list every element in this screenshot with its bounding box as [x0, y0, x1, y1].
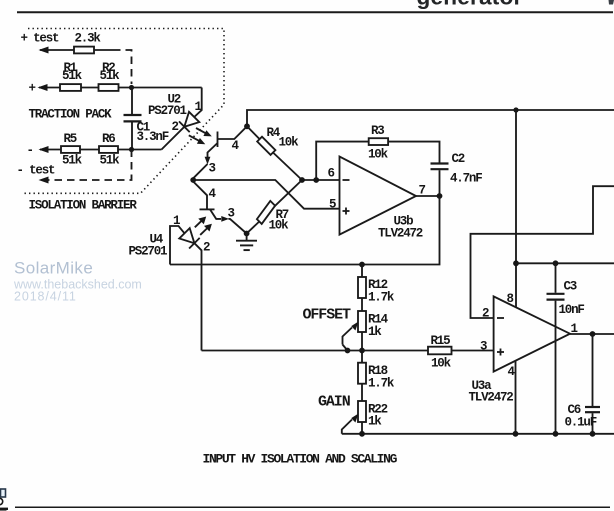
bottom horizontal rule — [15, 506, 610, 508]
wire R14 to R18 node — [361, 332, 363, 363]
label 3.3nF — [137, 130, 169, 144]
wire bridge left node to opamp pin5 — [193, 180, 339, 209]
label 51k (R2) — [100, 69, 121, 83]
R22 wiper arrow — [342, 420, 352, 434]
svg-text:GAIN: GAIN — [318, 394, 351, 411]
label 10nF — [559, 303, 585, 317]
capacitor C1 — [131, 88, 133, 115]
svg-text:INPUT HV ISOLATION AND SCALING: INPUT HV ISOLATION AND SCALING — [203, 452, 398, 467]
wire output down to offset bus — [170, 196, 440, 265]
svg-text:SolarMike: SolarMike — [14, 259, 93, 278]
resistor R15 — [428, 347, 452, 355]
label R3 — [371, 124, 384, 138]
dashed wire - test — [45, 150, 132, 181]
wire U3a pin2 feedback from right edge — [471, 186, 614, 318]
label R15 — [431, 334, 451, 348]
svg-text:+: + — [29, 82, 36, 96]
junction dot top bus — [513, 107, 518, 112]
label 4.7nF — [450, 172, 482, 186]
svg-text:1.7k: 1.7k — [368, 291, 395, 305]
label 10k (R7) — [269, 219, 290, 233]
main offset wire to R15 — [202, 350, 429, 352]
svg-text:R6: R6 — [102, 132, 115, 146]
svg-text:10k: 10k — [269, 219, 290, 233]
label 51k (R5) — [62, 154, 83, 168]
phototransistor U2 emitter with arrow (pin 3) — [208, 143, 218, 157]
label 1.7k (R18) — [368, 377, 395, 391]
node gnd bus C6 dot — [590, 431, 596, 437]
label - test — [17, 164, 56, 178]
node U3a output dot — [590, 331, 596, 337]
label R5 — [64, 132, 77, 146]
svg-text:PS2701: PS2701 — [148, 104, 187, 118]
caption INPUT HV ISOLATION AND SCALING — [203, 452, 398, 467]
label pin 1 (U2) — [195, 100, 202, 114]
wire U4 pin2 down — [194, 243, 201, 350]
light arrows U4 — [195, 217, 212, 235]
potentiometer R22 — [358, 401, 366, 422]
label pin 3 (U3a) — [480, 340, 487, 354]
svg-text:2018/4/11: 2018/4/11 — [14, 290, 77, 304]
wire R18 to R22 — [361, 384, 363, 401]
svg-text:10nF: 10nF — [559, 303, 585, 317]
potentiometer R14 — [358, 311, 366, 332]
node gnd bus pin4 dot — [513, 431, 519, 437]
label R22 — [368, 403, 388, 417]
top supply bus wire — [247, 110, 614, 126]
label TRACTION PACK — [29, 108, 113, 122]
svg-text:2: 2 — [172, 120, 179, 134]
label U3a — [472, 379, 493, 393]
svg-text:3: 3 — [480, 340, 487, 354]
phototransistor U4 base bar — [200, 208, 215, 210]
svg-text:1.7k: 1.7k — [368, 377, 395, 391]
label 1k (R22) — [368, 415, 382, 429]
supply bus wire right — [516, 262, 614, 264]
svg-text:+ test: + test — [21, 32, 60, 46]
label U4 — [150, 233, 164, 247]
phototransistor U4 emitter with arrow (pin 3) — [210, 209, 221, 219]
label R14 — [368, 313, 389, 327]
wire U3a pin4 down — [515, 361, 517, 434]
label C2 — [452, 152, 465, 166]
op-amp U3b — [340, 157, 417, 235]
label 10k (R4) — [279, 135, 300, 149]
LED U4 (PS2701 emitter diode) — [179, 228, 194, 243]
label 51k (R1) — [62, 69, 83, 83]
label + (pack positive) — [29, 82, 36, 96]
svg-text:6: 6 — [328, 167, 335, 181]
label GAIN — [318, 394, 351, 411]
svg-text:2: 2 — [482, 307, 489, 321]
ground bus wire — [342, 433, 614, 435]
label 10k (R15) — [431, 357, 452, 371]
label R4 — [267, 126, 281, 140]
label 1.7k (R12) — [368, 291, 395, 305]
phototransistor U2 collector (pin 4) — [218, 126, 247, 139]
watermark www.thebackshed.com — [13, 278, 142, 292]
label C3 — [564, 280, 577, 294]
label + test — [21, 32, 60, 46]
svg-text:3: 3 — [228, 207, 235, 221]
svg-text:R15: R15 — [431, 334, 451, 348]
offset bus junction dot at R12 top — [359, 262, 365, 268]
node U3b output dot — [437, 193, 443, 199]
svg-text:ISOLATION BARRIER: ISOLATION BARRIER — [29, 199, 138, 213]
resistor R7 diagonal — [273, 180, 302, 208]
resistor R12 — [361, 265, 363, 278]
phototransistor U2 base bar — [217, 132, 219, 148]
capacitor C2 — [431, 162, 449, 164]
wire R12 to R14 — [361, 298, 363, 311]
capacitor C6 — [592, 334, 594, 406]
label pin 7 — [419, 184, 426, 198]
wire U2 pin1 — [194, 88, 202, 118]
svg-text:3: 3 — [209, 162, 216, 176]
wire + test with left arrowhead — [40, 49, 113, 51]
node bridge top dot — [244, 123, 250, 129]
svg-text:10k: 10k — [368, 148, 389, 162]
svg-text:5: 5 — [329, 198, 336, 212]
wire bridge right node to opamp pin6 — [302, 179, 340, 181]
label pin 5 — [329, 198, 336, 212]
resistor 2.3k — [74, 47, 94, 54]
svg-text:generator: generator — [417, 0, 523, 10]
wire U2 pin2 — [162, 127, 185, 150]
svg-text:2.3k: 2.3k — [75, 32, 102, 46]
node gnd bus R22 dot — [359, 431, 365, 437]
capacitor C3 — [555, 263, 557, 293]
svg-text:TRACTION PACK: TRACTION PACK — [29, 108, 113, 122]
node B junction dot — [129, 147, 134, 152]
R14 wiper arrow — [343, 328, 353, 345]
label C1 — [137, 121, 150, 135]
page title text "generator" clipped at top — [417, 0, 523, 10]
watermark 2018/4/11 — [14, 290, 77, 304]
wire R22 bottom to bus — [361, 422, 363, 434]
node C3 top dot — [553, 260, 559, 266]
label pin 8 — [507, 292, 514, 306]
svg-text:51k: 51k — [62, 69, 83, 83]
label 1k (R14) — [368, 325, 382, 339]
label R12 — [368, 278, 388, 292]
svg-text:1: 1 — [173, 214, 180, 228]
label R6 — [102, 132, 115, 146]
svg-text:C3: C3 — [564, 280, 577, 294]
label pin 3 (U2 sensor) — [209, 162, 216, 176]
label 10k (R3) — [368, 148, 389, 162]
resistor R3 — [369, 138, 388, 145]
resistor R18 — [358, 363, 366, 384]
label pin 2 (U2) — [172, 120, 179, 134]
label pin 1 (U3a output) — [571, 322, 578, 336]
LED U2 (PS2701 emitter diode) — [184, 112, 199, 127]
label R7 — [276, 208, 289, 222]
label pin 6 — [328, 167, 335, 181]
svg-text:-: - — [27, 144, 33, 158]
svg-text:R3: R3 — [371, 124, 384, 138]
svg-text:- test: - test — [17, 164, 56, 178]
label PS2701 (U4) — [129, 245, 168, 259]
label 51k (R6) — [100, 154, 121, 168]
dashed wire from 2.3k to node A — [113, 50, 132, 84]
wire U3a output — [570, 333, 614, 335]
label OFFSET — [303, 307, 352, 324]
label ISOLATION BARRIER — [29, 199, 138, 213]
svg-text:OFFSET: OFFSET — [303, 307, 352, 324]
wire U3a pin8 supply — [515, 110, 517, 307]
node R14 wiper dot — [345, 348, 351, 354]
svg-text:10k: 10k — [431, 357, 452, 371]
label R18 — [368, 364, 388, 378]
svg-text:PS2701: PS2701 — [129, 245, 168, 259]
svg-text:4.7nF: 4.7nF — [450, 172, 482, 186]
resistor R2 — [99, 84, 119, 91]
label pin 2 (U3a) — [482, 307, 489, 321]
light arrows U2 — [189, 128, 212, 144]
label U3b — [394, 215, 414, 229]
label pin 2 (U4) — [203, 241, 210, 255]
label pin 4 (U3a) — [508, 365, 516, 379]
node R14-R18 dot — [359, 348, 365, 354]
svg-text:3.3nF: 3.3nF — [137, 130, 169, 144]
label C6 — [568, 403, 581, 417]
watermark SolarMike — [14, 259, 93, 278]
label R1 — [64, 61, 77, 75]
resistor R4 diagonal — [247, 126, 260, 139]
node gnd bus C3 dot — [553, 431, 559, 437]
label pin 3 (U4 sensor) — [228, 207, 235, 221]
svg-text:TLV2472: TLV2472 — [469, 391, 514, 405]
label TLV2472 (U3a) — [469, 391, 514, 405]
label - (pack negative) — [27, 144, 33, 158]
resistor R5 — [61, 146, 80, 153]
label R2 — [102, 61, 115, 75]
svg-text:51k: 51k — [100, 154, 121, 168]
bottom-left clipped icon — [0, 489, 8, 511]
node A junction dot — [129, 85, 134, 90]
wire R3 to C2 corner — [388, 142, 439, 163]
label TLV2472 (U3b) — [378, 227, 423, 241]
resistor R1 — [60, 84, 81, 91]
resistor R6 — [99, 146, 118, 153]
feedback wire to R3 — [316, 142, 369, 180]
wire U3b output — [416, 195, 440, 197]
top-right corner text fragment — [609, 0, 614, 5]
node bridge right dot — [299, 177, 305, 183]
svg-text:C2: C2 — [452, 152, 465, 166]
wire U4 pin1 — [170, 226, 185, 265]
svg-text:10k: 10k — [279, 135, 300, 149]
node bridge bottom dot — [244, 231, 250, 237]
label 0.1uF — [565, 416, 597, 430]
svg-text:1k: 1k — [368, 325, 382, 339]
svg-text:1k: 1k — [368, 415, 382, 429]
label PS2701 (U2) — [148, 104, 187, 118]
ground symbol — [246, 234, 248, 241]
top horizontal rule — [17, 11, 613, 13]
label 2.3k — [75, 32, 102, 46]
node bridge left dot — [190, 177, 196, 183]
label U2 — [168, 93, 181, 107]
svg-text:51k: 51k — [62, 154, 83, 168]
isolation barrier dotted boundary — [23, 29, 224, 194]
svg-text:2: 2 — [203, 241, 210, 255]
wire R15 to opamp pin3 — [452, 350, 494, 352]
label pin 1 (U4) — [173, 214, 180, 228]
wire - input — [40, 149, 162, 151]
svg-text:51k: 51k — [100, 69, 121, 83]
label pin 4 (U2 sensor) — [232, 139, 240, 153]
node feedback tap dot — [313, 177, 319, 183]
wire + input — [39, 87, 202, 89]
svg-text:TLV2472: TLV2472 — [378, 227, 423, 241]
label pin 4 (U4 sensor) — [209, 187, 217, 201]
phototransistor U4 collector (pin 4) — [193, 180, 207, 209]
node supply bus dot — [513, 260, 519, 266]
op-amp U3a — [494, 296, 570, 371]
svg-text:0.1uF: 0.1uF — [565, 416, 597, 430]
svg-text:R5: R5 — [64, 132, 77, 146]
svg-text:8: 8 — [507, 292, 514, 306]
